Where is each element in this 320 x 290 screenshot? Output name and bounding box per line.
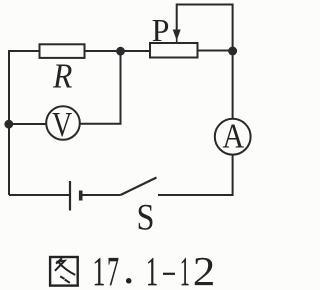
svg-text:R: R: [52, 57, 72, 96]
battery cell short plate: [79, 191, 83, 201]
node junction dot left: [4, 120, 13, 129]
wire top left segment: [8, 50, 40, 52]
node junction dot top right: [228, 47, 237, 56]
caption hyphen: [163, 273, 175, 275]
wire battery to bottom left corner: [9, 194, 70, 196]
svg-text:7: 7: [107, 248, 119, 290]
resistor R1 body: [40, 44, 85, 58]
caption text 17.1-12: [93, 248, 216, 290]
svg-text:1: 1: [93, 248, 106, 290]
rheostat P body: [150, 43, 198, 58]
wire left vertical: [8, 51, 10, 195]
svg-text:2: 2: [193, 248, 216, 290]
ammeter A1 circle: [215, 119, 251, 155]
caption period: [126, 278, 132, 284]
svg-text:1: 1: [180, 248, 190, 290]
caption character 图: [50, 257, 78, 286]
battery cell long plate: [69, 181, 71, 211]
svg-text:P: P: [152, 12, 170, 48]
wire R right to P left: [84, 50, 150, 52]
wire right vertical to ammeter: [232, 51, 234, 119]
switch S blade: [121, 178, 157, 196]
wire ammeter to bottom right corner: [158, 155, 233, 195]
wire voltmeter left: [9, 123, 47, 125]
voltmeter V1 circle: [46, 106, 80, 140]
wire top loop of P wiper: [177, 5, 233, 52]
svg-text:S: S: [137, 197, 155, 238]
node junction dot top middle: [116, 47, 125, 56]
wire P right to right vertical: [197, 50, 233, 52]
svg-text:1: 1: [146, 248, 158, 290]
wire voltmeter right up to node: [79, 51, 121, 124]
svg-text:A: A: [222, 117, 244, 156]
svg-text:V: V: [52, 105, 72, 144]
rheostat P wiper arrowhead: [173, 30, 181, 41]
wire switch pivot to battery: [81, 194, 121, 196]
